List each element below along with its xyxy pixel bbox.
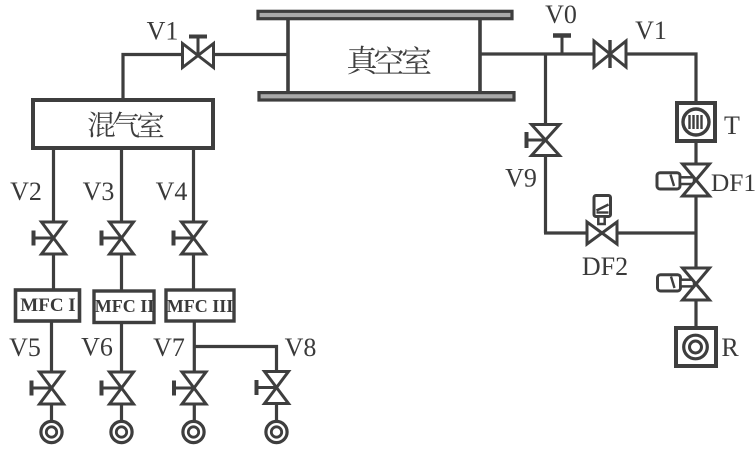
wire: MFC I to gas source 1 (through V5)	[50, 320, 53, 423]
valve V7 stem	[174, 387, 194, 390]
vacuum chamber right wall	[478, 14, 482, 97]
svg-text:R: R	[721, 333, 739, 362]
svg-text:V8: V8	[285, 333, 317, 362]
wire: right vertical from gauge T through DF1 and DF3 to gauge R	[694, 140, 697, 329]
valve V2 stem	[34, 237, 54, 240]
valve V8 stem	[257, 386, 277, 389]
mixing chamber label 混气室	[88, 112, 115, 138]
vacuum chamber bottom flange	[259, 93, 514, 100]
svg-text:V6: V6	[81, 333, 113, 362]
svg-text:V2: V2	[10, 177, 42, 206]
gauge T box	[677, 103, 715, 141]
valve V5 stem	[32, 387, 52, 390]
valve DF3 body	[683, 268, 710, 284]
svg-text:V4: V4	[156, 177, 188, 206]
valve V7 body	[182, 372, 206, 388]
mixing chamber box	[33, 100, 213, 148]
valve V6 body	[110, 372, 134, 388]
wire: MFC III to gas source 3 (through V7)	[193, 320, 196, 423]
valve DF2 body	[587, 222, 602, 244]
valve V9 body	[532, 125, 560, 141]
valve V2 body	[42, 222, 66, 238]
svg-text:V0: V0	[545, 0, 577, 29]
gauge T circle	[683, 109, 709, 135]
gauge R outer circle	[684, 335, 708, 359]
svg-text:V7: V7	[153, 333, 185, 362]
wire: mixing chamber to MFC III (through V4)	[192, 148, 195, 291]
valve DF1 stem	[680, 177, 694, 184]
svg-text:MFC I: MFC I	[20, 295, 75, 316]
gauge T hatch	[688, 115, 690, 129]
valve V6 stem	[102, 387, 122, 390]
valve DF1 body	[683, 164, 710, 180]
svg-text:MFC II: MFC II	[95, 296, 155, 316]
valve DF2 stem	[598, 217, 604, 225]
valve V4 stem	[174, 237, 194, 240]
wire: MFC II to gas source 2 (through V6)	[120, 322, 123, 424]
valve DF3 actuator box (unlabeled)	[658, 275, 681, 291]
valve V1 (chamber inlet) body	[183, 44, 199, 68]
valve DF1 actuator box	[657, 173, 680, 189]
wire: mixing chamber to MFC I (through V2)	[52, 148, 55, 291]
svg-text:V1: V1	[147, 17, 179, 46]
svg-text:V3: V3	[83, 177, 115, 206]
wire: branch down from main line through V9 to bottom manifold	[544, 54, 547, 233]
valve V1 (right, bellows) body	[594, 41, 610, 67]
valve V3 stem	[102, 237, 122, 240]
svg-text:V5: V5	[9, 333, 41, 362]
gas source 1 (cylinder symbol)	[41, 421, 62, 442]
valve V0 (vent stem)	[561, 36, 564, 54]
svg-text:T: T	[724, 111, 740, 140]
vacuum chamber label 真空室	[348, 46, 376, 75]
valve V3 body	[110, 222, 134, 238]
valve V8 body	[265, 372, 289, 388]
svg-text:DF1: DF1	[711, 168, 756, 197]
gauge R box	[676, 328, 716, 366]
MFC II box	[94, 291, 154, 323]
wire: vacuum chamber right port to corner above gauge T	[480, 54, 696, 104]
valve V1 (chamber inlet) stem	[197, 37, 200, 55]
gas source 3 (cylinder symbol)	[183, 421, 204, 442]
gas source 4 (cylinder symbol)	[266, 421, 287, 442]
valve V9 stem	[527, 139, 546, 142]
MFC I box	[16, 290, 80, 321]
wire: mixing chamber inlet up to valve V1 and vacuum chamber	[123, 55, 288, 101]
valve V1 (right) center bar	[608, 40, 611, 68]
wire: branch to V8	[194, 347, 277, 424]
gas source 2 (cylinder symbol)	[111, 421, 132, 442]
wire: bottom manifold V9 to right vertical (through DF2)	[544, 231, 696, 234]
MFC III box	[166, 290, 234, 321]
svg-text:V1: V1	[635, 16, 667, 45]
vacuum chamber left wall	[286, 14, 290, 97]
svg-text:DF2: DF2	[582, 252, 628, 281]
valve V4 body	[182, 222, 206, 238]
svg-text:V9: V9	[505, 164, 537, 193]
valve DF3 stem	[681, 280, 695, 287]
valve V5 body	[40, 372, 64, 388]
svg-text:MFC III: MFC III	[167, 296, 234, 316]
gauge R inner circle	[690, 341, 702, 353]
vacuum chamber top flange	[258, 11, 512, 18]
wire: mixing chamber to MFC II (through V3)	[120, 148, 123, 292]
valve DF2 actuator box	[594, 196, 611, 217]
